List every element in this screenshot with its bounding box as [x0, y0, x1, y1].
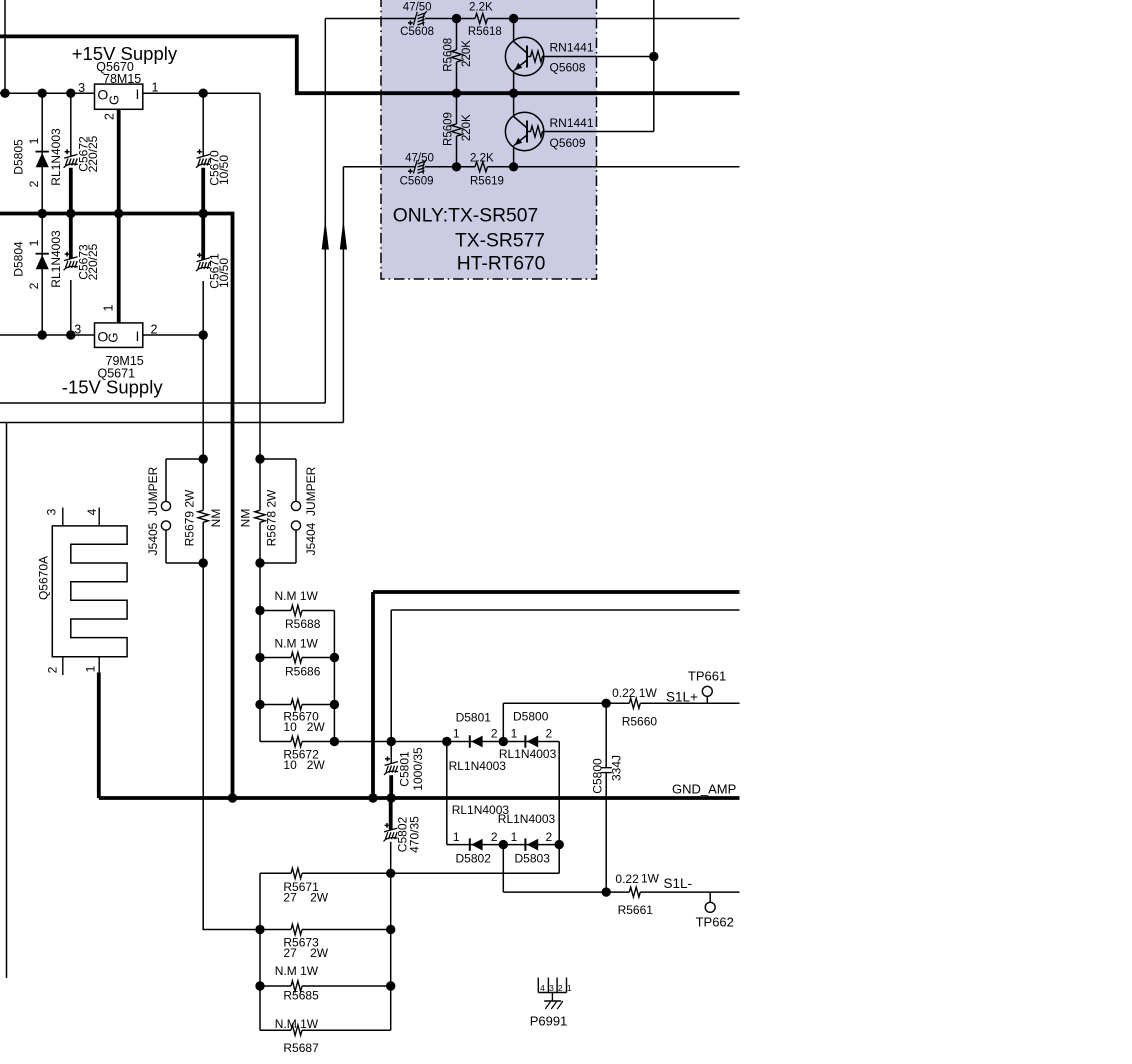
wire R5608 bottom [456, 62, 458, 93]
junction [509, 162, 518, 171]
testpoint TP661 [688, 669, 726, 704]
arrow up 2 [340, 220, 347, 250]
junction [199, 454, 208, 463]
wire [143, 92, 260, 94]
svg-text:D5802: D5802 [456, 852, 492, 866]
wire C5801 top lead [390, 742, 392, 764]
wire to C5608 net [0, 19, 740, 404]
svg-text:N.M 1W: N.M 1W [275, 964, 319, 978]
junction [66, 330, 75, 339]
wire D5805 branch [41, 93, 43, 213]
wire R5673 right [302, 929, 391, 931]
wire R5688 right [302, 610, 334, 612]
junction [649, 52, 658, 61]
resistor R5672 10 2W [260, 736, 325, 772]
junction [255, 700, 264, 709]
resistor R5670 10 2W [260, 699, 334, 734]
wire C5800 top lead [605, 703, 607, 767]
svg-text:R5619: R5619 [470, 175, 504, 187]
svg-text:TP661: TP661 [688, 669, 726, 684]
svg-text:D5800: D5800 [513, 710, 549, 724]
transistor Q5609 RN1441 [505, 93, 593, 167]
svg-text:RL1N4003: RL1N4003 [498, 812, 556, 826]
svg-text:R5660: R5660 [622, 714, 658, 728]
wire R5661 left [606, 891, 629, 893]
node S1L- [503, 845, 692, 893]
capacitor C5609 47/50 [400, 152, 434, 187]
arrow up 1 [322, 220, 329, 250]
wire Q5671 pin1 from bus [117, 214, 121, 323]
wire column to J5404 [259, 93, 261, 510]
wire D5803 to R5671 drop [558, 845, 560, 874]
svg-text:R5609: R5609 [443, 112, 455, 146]
capacitor C5802 470/35 [384, 798, 422, 873]
svg-text:10/50: 10/50 [217, 258, 231, 288]
junction [66, 209, 75, 218]
wire C5672 top lead [70, 93, 72, 156]
junction [255, 925, 264, 934]
resistor R5679 2W NM [183, 489, 224, 546]
junction [38, 330, 47, 339]
svg-text:1: 1 [511, 830, 518, 844]
transistor Q5608 RN1441 [505, 19, 593, 94]
resistor R5609 220K [443, 112, 474, 146]
svg-text:RN1441: RN1441 [550, 41, 594, 55]
svg-text:2: 2 [27, 180, 41, 187]
wire C5670 top lead [202, 93, 204, 156]
svg-text:3: 3 [44, 508, 58, 515]
svg-text:C5609: C5609 [400, 175, 434, 187]
svg-text:TP662: TP662 [696, 915, 734, 930]
svg-text:47/50: 47/50 [403, 1, 432, 13]
capacitor C5673 220/25 [64, 243, 100, 280]
svg-text:2: 2 [45, 666, 59, 673]
svg-text:2: 2 [27, 282, 41, 289]
svg-text:220K: 220K [461, 114, 473, 141]
wire Q5670 pin2 to bus [117, 109, 121, 213]
junction [555, 840, 564, 849]
wire R5661 right / S1L- out [640, 891, 739, 893]
resistor R5688 N.M 1W [260, 589, 334, 631]
wire stack left rail upper [259, 522, 261, 741]
svg-text:3: 3 [74, 323, 81, 337]
junction [114, 209, 123, 218]
junction [66, 89, 75, 98]
svg-text:S1L-: S1L- [664, 876, 693, 891]
wire Q5609 emitter [513, 145, 515, 167]
junction [368, 793, 377, 802]
resistor R5687 N.M 1W [260, 1017, 391, 1055]
svg-text:1: 1 [453, 830, 460, 844]
wire R5673 left [260, 929, 291, 931]
diode D5804 RL1N4003 [11, 230, 63, 289]
svg-text:470/35: 470/35 [407, 816, 421, 853]
svg-text:1: 1 [511, 727, 518, 741]
svg-text:R5661: R5661 [618, 903, 654, 917]
wire D5802 row [447, 844, 559, 846]
resistor R5660 0.22 1W [606, 686, 739, 728]
junction [602, 887, 611, 896]
svg-text:R5687: R5687 [283, 1041, 319, 1055]
junction [509, 89, 518, 98]
svg-text:1000/35: 1000/35 [411, 747, 425, 791]
wire bottom stack left rail [259, 873, 261, 1030]
junction [38, 89, 47, 98]
diode D5805 RL1N4003 [11, 128, 63, 187]
svg-text:D5801: D5801 [456, 711, 492, 725]
wire D5801 to D5802 drop [446, 742, 448, 845]
wire R5687 right [302, 1029, 391, 1031]
capacitor C5672 220/25 [64, 135, 100, 172]
svg-text:N.M 1W: N.M 1W [275, 636, 319, 650]
resistor R5671 27 2W [260, 868, 559, 904]
junction [602, 699, 611, 708]
wire R5608 top [456, 19, 458, 50]
wire mid thick bus [0, 214, 233, 799]
svg-text:I: I [135, 328, 139, 344]
wire J5405 left top [166, 459, 203, 501]
diode D5801 RL1N4003 [449, 711, 507, 774]
wire Q5608 collector [513, 19, 515, 42]
junction [255, 454, 264, 463]
svg-text:Q5670A: Q5670A [36, 556, 50, 600]
svg-text:RN1441: RN1441 [550, 116, 594, 130]
wire J5404 right top [260, 459, 296, 501]
svg-text:TX-SR577: TX-SR577 [455, 230, 545, 251]
wire R5672 left [260, 741, 291, 743]
svg-text:S1L+: S1L+ [666, 690, 698, 705]
svg-text:1: 1 [567, 983, 572, 993]
capacitor C5800 334J [590, 703, 623, 892]
resistor R5661 0.22 1W [606, 872, 739, 918]
svg-text:2: 2 [545, 727, 552, 741]
diode D5803 RL1N4003 [498, 812, 556, 866]
resistor R5618 2.2K [468, 1, 502, 38]
svg-text:220/25: 220/25 [86, 243, 100, 280]
svg-text:2: 2 [491, 830, 498, 844]
svg-text:4: 4 [540, 983, 545, 993]
jumper J5405 [146, 459, 203, 563]
wire TP662 stem [709, 892, 711, 902]
junction [199, 330, 208, 339]
junction [330, 653, 339, 662]
wire [143, 334, 203, 336]
wire Q5609 base riser [544, 0, 654, 132]
junction [255, 981, 264, 990]
junction [199, 558, 208, 567]
svg-text:HT-RT670: HT-RT670 [457, 254, 546, 275]
svg-text:R5688: R5688 [285, 617, 321, 631]
wire Q5608 base [544, 56, 654, 58]
svg-text:1: 1 [152, 81, 159, 95]
junction [452, 89, 461, 98]
resistor R5685 N.M 1W [260, 964, 391, 1002]
svg-text:G: G [106, 332, 121, 342]
capacitor C5801 1000/35 [384, 742, 425, 799]
wire R5671 right [302, 872, 559, 874]
svg-text:NM: NM [238, 509, 252, 528]
wire C5673 top lead [69, 214, 73, 259]
svg-text:R5679 2W: R5679 2W [183, 489, 197, 546]
svg-text:J5404 JUMPER: J5404 JUMPER [304, 466, 318, 555]
wire TP661 stem [706, 696, 708, 703]
svg-text:D5805: D5805 [11, 139, 25, 175]
svg-text:2: 2 [103, 113, 117, 120]
wire GND_AMP bus [99, 673, 740, 799]
svg-text:3: 3 [78, 81, 85, 95]
svg-text:334J: 334J [610, 755, 624, 781]
wire R5609 top [456, 93, 458, 124]
svg-text:27 2W: 27 2W [283, 946, 328, 960]
svg-text:78M15: 78M15 [103, 72, 141, 86]
junction [442, 737, 451, 746]
wire R5687 left [260, 1029, 291, 1031]
svg-text:C5608: C5608 [400, 26, 434, 38]
svg-text:1: 1 [27, 239, 41, 246]
wire column down to R5673 [203, 522, 260, 929]
wire R5609 bottom [456, 136, 458, 167]
regulator Q5670 78M15 [78, 60, 158, 120]
junction [452, 162, 461, 171]
wire right thin net [391, 610, 739, 742]
junction [452, 14, 461, 23]
svg-text:2: 2 [545, 830, 552, 844]
svg-text:2.2K: 2.2K [469, 1, 493, 13]
wire to C5609 net [0, 167, 740, 423]
junction [387, 737, 396, 746]
wire R5660 right / S1L+ out [640, 702, 739, 704]
wire J5404 right bottom [260, 530, 296, 563]
junction [255, 606, 264, 615]
junction [499, 737, 508, 746]
wire C5672 bottom lead [69, 168, 73, 214]
svg-text:R5608: R5608 [443, 38, 455, 72]
wire [0, 334, 95, 336]
svg-text:220K: 220K [461, 40, 473, 67]
junction [199, 89, 208, 98]
junction [509, 14, 518, 23]
wire R5685 right [302, 985, 391, 987]
wire right thick bus [373, 592, 740, 798]
junction [199, 209, 208, 218]
svg-text:1: 1 [84, 665, 98, 672]
text option models [393, 206, 546, 275]
svg-text:R5678 2W: R5678 2W [264, 489, 278, 546]
junction [255, 653, 264, 662]
svg-text:Q5609: Q5609 [550, 136, 586, 150]
svg-text:G: G [107, 95, 122, 105]
resistor R5678 2W NM [238, 489, 278, 546]
junction [228, 793, 237, 802]
wire R5688 left [260, 610, 291, 612]
svg-text:Q5671: Q5671 [98, 367, 136, 381]
junction [38, 209, 47, 218]
wire C5671 bottom lead [202, 281, 204, 335]
wire Q5608 emitter [513, 70, 515, 93]
svg-text:4: 4 [85, 508, 99, 515]
wire R5672 row to D5800 [302, 742, 559, 845]
wire J5405 left bottom [166, 530, 203, 563]
svg-text:R5686: R5686 [285, 664, 321, 678]
svg-text:Q5608: Q5608 [550, 61, 586, 75]
wire R5660 left [606, 702, 629, 704]
junction [499, 840, 508, 849]
svg-text:P6991: P6991 [530, 1014, 568, 1029]
wire C5801 bottom lead [389, 775, 393, 798]
svg-text:RL1N4003: RL1N4003 [49, 128, 63, 186]
wire R5670 right [302, 704, 334, 706]
wire [0, 92, 95, 94]
svg-text:RL1N4003: RL1N4003 [449, 759, 507, 773]
svg-text:1: 1 [453, 727, 460, 741]
junction [330, 700, 339, 709]
capacitor C5670 10/50 [196, 149, 231, 185]
svg-text:ONLY:TX-SR507: ONLY:TX-SR507 [393, 206, 538, 227]
junction [330, 737, 339, 746]
junction [0, 89, 9, 98]
wire C5670 bottom lead [201, 168, 205, 214]
svg-text:2: 2 [151, 322, 158, 336]
svg-text:C5801: C5801 [398, 751, 412, 787]
svg-text:N.M 1W: N.M 1W [275, 1017, 319, 1031]
wire C5802 bottom lead [390, 842, 392, 874]
resistor R5619 2.2K [470, 152, 504, 187]
wire C5673 bottom lead [70, 280, 72, 335]
wire column to J5405 [202, 335, 204, 510]
svg-text:1: 1 [102, 304, 116, 311]
wire stack right rail [333, 611, 335, 742]
svg-text:1: 1 [27, 137, 41, 144]
svg-text:10 2W: 10 2W [283, 720, 325, 734]
wire to S1L+ row [503, 703, 606, 741]
junction [387, 793, 396, 802]
resistor R5686 N.M 1W [260, 636, 334, 678]
junction [255, 558, 264, 567]
svg-text:47/50: 47/50 [405, 152, 434, 164]
svg-text:0.22: 0.22 [615, 872, 639, 886]
svg-text:GND_AMP: GND_AMP [672, 781, 736, 796]
resistor R5673 27 2W [260, 924, 391, 960]
svg-text:1W: 1W [641, 872, 660, 886]
svg-text:J5405 JUMPER: J5405 JUMPER [146, 466, 160, 555]
svg-text:RL1N4003: RL1N4003 [499, 747, 557, 761]
testpoint TP662 [696, 892, 734, 929]
wire R5686 right [302, 657, 334, 659]
svg-text:10 2W: 10 2W [283, 758, 325, 772]
wire R5670 left [260, 704, 291, 706]
option zone box ONLY:TX-SR507 [381, 0, 597, 279]
wire bottom stack right rail [390, 873, 392, 1030]
wire left vertical [6, 423, 8, 979]
connector P6991 [530, 978, 572, 1029]
svg-text:D5803: D5803 [515, 852, 551, 866]
svg-text:3: 3 [549, 983, 554, 993]
wire R5686 left [260, 657, 291, 659]
wire D5804 branch [41, 214, 43, 336]
svg-text:D5804: D5804 [11, 241, 25, 277]
svg-text:2: 2 [558, 983, 563, 993]
wire C5800 bottom lead [605, 773, 607, 893]
wire Q5609 collector [513, 93, 515, 116]
svg-text:2: 2 [491, 727, 498, 741]
wire R5671 left [260, 872, 291, 874]
junction [386, 869, 395, 878]
svg-text:R5618: R5618 [468, 26, 502, 38]
ground [544, 993, 563, 1010]
svg-text:27 2W: 27 2W [283, 891, 328, 905]
diode D5802 RL1N4003 [447, 803, 559, 866]
node S1L+ [503, 690, 698, 742]
diode D5800 RL1N4003 [499, 710, 557, 761]
junction [386, 981, 395, 990]
thermal device Q5670A [36, 508, 127, 676]
svg-text:C5800: C5800 [590, 758, 604, 794]
regulator Q5671 79M15 [74, 304, 157, 380]
svg-text:N.M 1W: N.M 1W [275, 589, 319, 603]
wire C5802 top lead [389, 798, 393, 830]
wire to S1L- row [503, 845, 606, 893]
wire [4, 0, 6, 93]
svg-text:R5685: R5685 [283, 988, 319, 1002]
capacitor C5671 10/50 [196, 253, 231, 289]
capacitor C5608 47/50 [400, 1, 434, 38]
svg-text:I: I [135, 86, 139, 102]
svg-text:0.22 1W: 0.22 1W [612, 686, 657, 700]
resistor R5608 220K [443, 38, 474, 72]
wire R5685 left [260, 985, 291, 987]
junction [386, 925, 395, 934]
wire C5671 top lead [201, 214, 205, 260]
svg-text:10/50: 10/50 [217, 155, 231, 185]
svg-text:RL1N4003: RL1N4003 [49, 230, 63, 288]
svg-text:2.2K: 2.2K [470, 152, 494, 164]
svg-text:220/25: 220/25 [86, 135, 100, 172]
svg-text:NM: NM [209, 509, 223, 528]
jumper J5404 [260, 459, 318, 563]
wire +B thick bus top [0, 36, 740, 93]
